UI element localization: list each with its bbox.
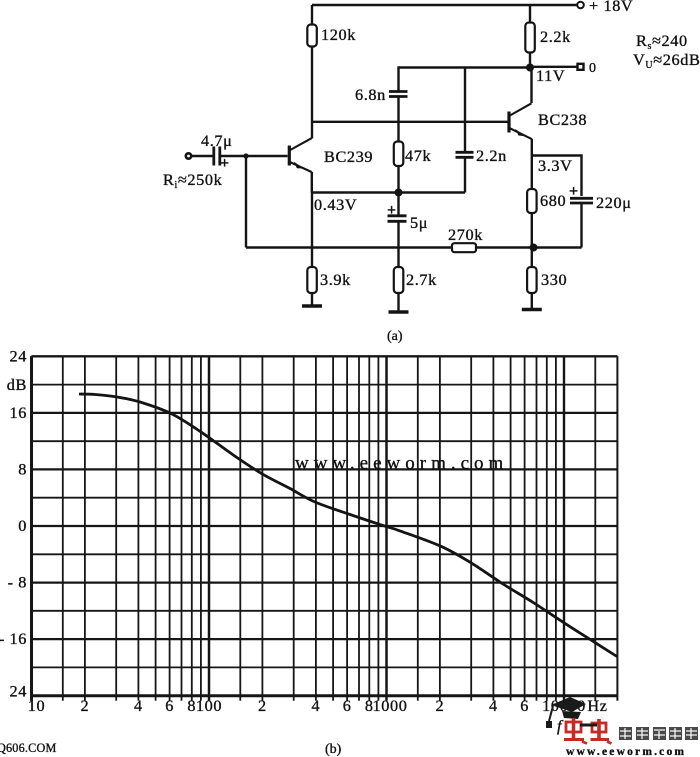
wire 2.2k top — [529, 5, 531, 23]
resistor 680 — [527, 189, 537, 213]
resistor 330 — [527, 267, 537, 293]
wire Q1 collector to Q2 base — [312, 121, 508, 123]
svg-text:24: 24 — [10, 682, 27, 701]
node 47k/5u junction — [395, 189, 403, 197]
node base bias junction — [243, 153, 248, 158]
svg-text:8: 8 — [18, 460, 27, 479]
capacitor 6.8n — [389, 92, 408, 97]
transistor Q1 BC239 — [289, 138, 311, 172]
svg-text:Q606.COM: Q606.COM — [0, 741, 57, 755]
svg-text:VU≈26dB: VU≈26dB — [633, 50, 700, 71]
svg-text:+ 18V: + 18V — [589, 0, 633, 15]
capacitor 2.2n — [456, 152, 474, 157]
wire 2.2k bottom to node — [529, 53, 531, 68]
resistor 270k — [452, 243, 476, 252]
wire emitter node run — [532, 156, 582, 197]
svg-text:11V: 11V — [536, 66, 565, 85]
wire Q2 emitter — [531, 139, 533, 156]
svg-text:- 16: - 16 — [0, 629, 27, 648]
wire cap to Q1 base — [220, 155, 288, 157]
wire 330 top — [531, 248, 533, 268]
wire 2.7k to ground — [397, 293, 399, 312]
resistor 120k — [307, 25, 317, 47]
wire 330 to ground — [531, 293, 533, 310]
node 11V — [526, 64, 534, 72]
svg-text:Hz: Hz — [587, 696, 607, 715]
svg-text:120k: 120k — [321, 25, 356, 44]
wire Q1 emitter run — [312, 191, 465, 193]
svg-text:dB: dB — [7, 375, 27, 394]
watermark cap logo — [546, 697, 586, 728]
svg-text:3.3V: 3.3V — [538, 156, 573, 175]
wire left branch top — [311, 5, 313, 25]
svg-text:8: 8 — [187, 696, 196, 715]
terminal input — [186, 153, 191, 158]
resistor 2.2k — [525, 23, 535, 53]
svg-text:6: 6 — [520, 696, 529, 715]
transistor Q2 BC238 — [509, 103, 532, 139]
svg-text:1000: 1000 — [373, 696, 408, 715]
svg-text:www.eeworm.com: www.eeworm.com — [295, 453, 508, 474]
wire 270k to divider node — [476, 246, 582, 248]
svg-text:4: 4 — [489, 696, 498, 715]
ground under 330 — [522, 308, 542, 312]
svg-text:2.2k: 2.2k — [540, 27, 571, 46]
svg-text:(b): (b) — [325, 742, 342, 757]
svg-text:2: 2 — [436, 696, 445, 715]
wire Q1 emitter line — [311, 172, 313, 193]
svg-text:0.43V: 0.43V — [314, 195, 357, 214]
svg-text:0: 0 — [589, 61, 596, 76]
svg-text:BC239: BC239 — [324, 147, 373, 166]
wire 5u top — [397, 193, 399, 216]
svg-text:330: 330 — [541, 270, 567, 289]
terminal +18V — [577, 2, 584, 9]
svg-text:2: 2 — [258, 696, 267, 715]
svg-text:+: + — [569, 183, 578, 200]
svg-text:0: 0 — [18, 516, 27, 535]
terminal output — [578, 64, 584, 70]
capacitor 5u — [388, 216, 407, 222]
svg-text:Ri≈250k: Ri≈250k — [163, 170, 223, 191]
svg-text:Rs≈240: Rs≈240 — [636, 31, 688, 52]
ground under 2.7k — [389, 310, 409, 314]
wire 5u to 2.7k — [397, 222, 399, 268]
svg-text:680: 680 — [540, 191, 566, 210]
svg-text:+: + — [387, 202, 396, 219]
svg-text:www.eeworm.com: www.eeworm.com — [566, 746, 686, 757]
watermark site name blocks — [619, 727, 698, 740]
wire 6.8n bottom — [397, 97, 399, 122]
response curve — [79, 394, 617, 657]
wire feedback net — [399, 68, 531, 92]
wire 2.2n top branch — [464, 68, 466, 153]
svg-text:BC238: BC238 — [538, 110, 587, 129]
resistor 2.7k — [394, 267, 404, 293]
svg-text:47k: 47k — [405, 146, 431, 165]
svg-text:2.7k: 2.7k — [406, 270, 437, 289]
svg-text:6.8n: 6.8n — [355, 85, 386, 104]
resistor 3.9k — [307, 267, 317, 293]
wire bias branch vertical — [245, 156, 247, 248]
svg-text:3.9k: 3.9k — [320, 270, 351, 289]
capacitor 220u — [570, 198, 593, 203]
svg-text:4.7μ: 4.7μ — [201, 131, 232, 150]
svg-text:6: 6 — [165, 696, 174, 715]
wire 680 bottom — [531, 213, 533, 248]
svg-text:- 8: - 8 — [8, 573, 27, 592]
ground under 3.9k — [302, 304, 322, 308]
wire output — [530, 66, 577, 68]
svg-text:220μ: 220μ — [596, 193, 632, 212]
svg-text:6: 6 — [343, 696, 352, 715]
wire 47k bottom — [397, 166, 399, 193]
svg-text:24: 24 — [10, 346, 27, 365]
wire 680 top — [531, 156, 533, 190]
svg-text:270k: 270k — [448, 225, 483, 244]
svg-text:100: 100 — [196, 696, 222, 715]
wire 2.2n bottom — [464, 157, 466, 192]
wire 120k to Q1 collector — [311, 47, 313, 139]
svg-text:5μ: 5μ — [410, 213, 428, 232]
wire Q2 collector — [530, 68, 532, 104]
resistor 47k — [394, 142, 404, 167]
svg-text:2: 2 — [81, 696, 90, 715]
svg-text:16: 16 — [10, 403, 27, 422]
wire +18V top rail — [312, 4, 577, 6]
wire bias bottom run — [246, 246, 452, 248]
capacitor C1 4.7u — [214, 147, 220, 166]
svg-text:2.2n: 2.2n — [476, 146, 507, 165]
wire 3.9k branch — [311, 193, 313, 268]
watermark bug characters — [564, 718, 612, 744]
wire 220u bottom — [580, 203, 582, 248]
svg-text:(a): (a) — [387, 329, 403, 344]
wire 3.9k to ground — [311, 293, 313, 306]
svg-text:4: 4 — [134, 696, 143, 715]
svg-text:10: 10 — [28, 696, 45, 715]
node divider junction — [530, 244, 538, 252]
wire input terminal to cap — [191, 155, 213, 157]
svg-text:4: 4 — [312, 696, 321, 715]
wire 47k top — [397, 122, 399, 142]
